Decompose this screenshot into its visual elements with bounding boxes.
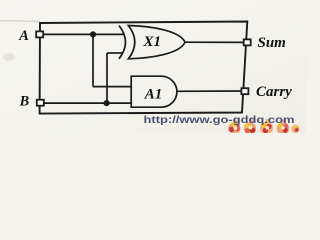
svg-text:A1: A1 [144,87,163,103]
svg-text:Sum: Sum [258,35,286,51]
svg-text:A: A [18,28,29,44]
svg-text:Carry: Carry [256,84,292,100]
svg-text:http://www.go-gddq.com: http://www.go-gddq.com [144,115,295,126]
svg-text:X1: X1 [143,34,162,50]
svg-text:B: B [19,93,30,109]
